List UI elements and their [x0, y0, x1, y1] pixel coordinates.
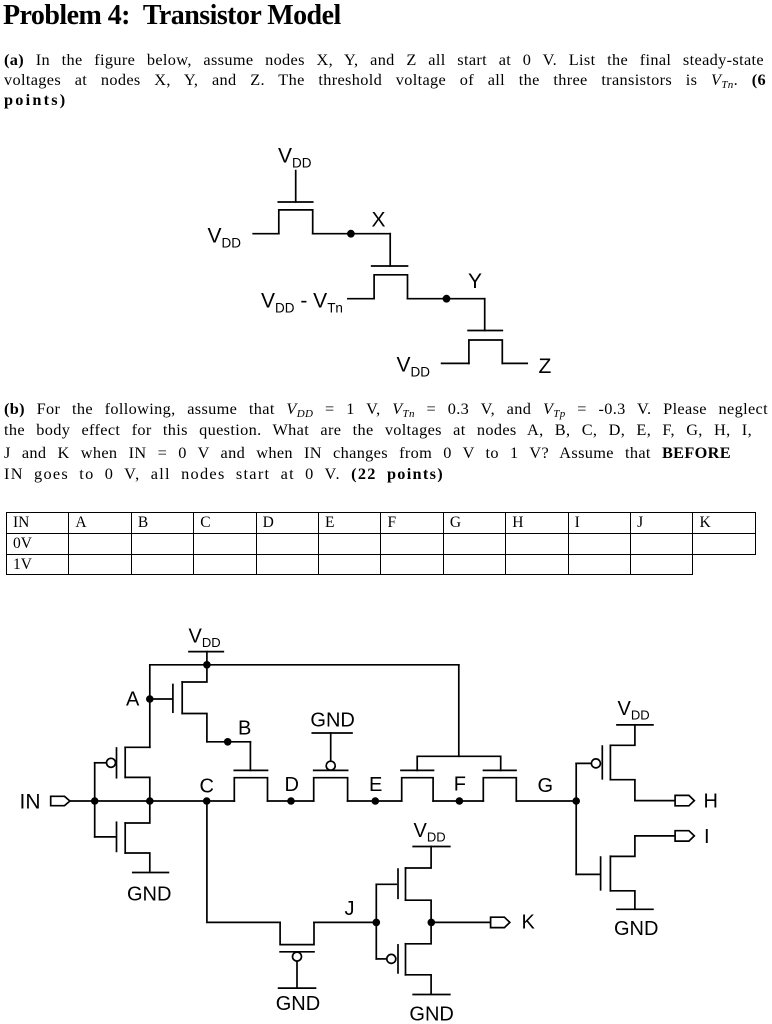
svg-text:GND: GND: [409, 1004, 453, 1024]
svg-text:H: H: [704, 791, 718, 813]
node B dot: [224, 738, 232, 746]
svg-text:I: I: [704, 826, 710, 848]
power VDD (right) bar: [617, 724, 653, 726]
transistor M11 (NMOS of K inverter): [376, 847, 431, 923]
svg-text:X: X: [372, 209, 386, 232]
svg-text:VDD - VTn: VDD - VTn: [261, 290, 343, 316]
transistor M3: [468, 331, 502, 364]
paragraph (a) line 1: [4, 50, 764, 70]
svg-text:A: A: [126, 689, 140, 711]
paragraph (b) line 2: [4, 420, 752, 440]
svg-text:IN: IN: [20, 791, 41, 814]
wire drain M1 to node X: [313, 233, 391, 235]
wire G gate column: [575, 763, 577, 874]
port I: [675, 831, 694, 841]
node C dot: [203, 797, 211, 805]
svg-text:F: F: [454, 774, 466, 796]
wire bus segment M7 to G: [516, 800, 576, 802]
transistor M9 (NMOS, output I): [576, 836, 635, 908]
wire bus segment M6 to M7: [433, 800, 483, 802]
svg-text:GND: GND: [276, 993, 320, 1015]
transistor M4 (pass, C-D): [234, 770, 267, 801]
transistor M2 (NMOS, gate A): [173, 665, 207, 742]
wire gate bridge M6/M7 to rail: [417, 665, 501, 771]
svg-text:K: K: [522, 912, 536, 934]
wire node B: [207, 741, 251, 743]
transistor M1: [278, 202, 312, 234]
wire J gate column: [375, 884, 377, 959]
port K: [491, 917, 510, 927]
wire B to gate of M4: [249, 742, 251, 771]
wire to port H: [635, 800, 675, 802]
node X dot: [347, 230, 355, 238]
wire node A to gate of M2: [150, 698, 172, 700]
node J dot: [373, 919, 381, 927]
node E dot: [372, 797, 380, 805]
node A dot: [146, 695, 154, 703]
svg-text:GND: GND: [127, 884, 171, 906]
paragraph (a) line 3: [4, 90, 67, 110]
wire node X to gate M2: [389, 234, 391, 266]
svg-text:B: B: [238, 718, 251, 740]
svg-text:D: D: [285, 774, 299, 796]
svg-text:Z: Z: [539, 355, 552, 378]
node G dot: [572, 797, 580, 805]
transistor M3 (NMOS of input inverter): [95, 801, 150, 871]
transistor M7 (pass, F-G): [483, 770, 516, 801]
paragraph (b) line 4: [4, 464, 444, 484]
wire to port I: [635, 835, 675, 837]
svg-text:VDD: VDD: [618, 698, 650, 723]
power VDD (K inverter) bar: [413, 846, 450, 848]
answer table: [6, 512, 756, 575]
wire to port K: [431, 921, 490, 923]
svg-text:C: C: [200, 776, 214, 798]
port IN: [51, 796, 70, 805]
svg-text:J: J: [345, 898, 355, 920]
svg-text:GND: GND: [614, 918, 658, 940]
wire source M2: [348, 298, 374, 300]
wire gate M1 from VDD: [295, 171, 297, 202]
transistor M12 (PMOS of K inverter): [376, 922, 431, 994]
wire drain M3 to Z: [502, 362, 527, 364]
svg-text:E: E: [369, 774, 382, 796]
ground bar (above M5): [312, 732, 352, 734]
wire M10 gate bubble to GND: [296, 961, 298, 987]
inverter output dot: [146, 797, 154, 805]
wire main bus segment IN to M4: [70, 800, 234, 802]
node IN dot: [91, 797, 99, 805]
node K dot: [428, 919, 436, 927]
wire bus segment M5 to M6: [348, 800, 402, 802]
wire IN gate column: [94, 763, 96, 837]
transistor M8 (PMOS, output H): [576, 725, 635, 801]
svg-text:G: G: [538, 775, 554, 797]
paragraph (a) line 2: [4, 70, 766, 95]
ground bar (below M10): [279, 987, 316, 989]
ground bar (right): [617, 908, 653, 910]
svg-text:VDD: VDD: [278, 145, 312, 171]
wire VDD rail: [150, 665, 459, 748]
wire bus segment M4 to M5: [268, 800, 314, 802]
svg-text:VDD: VDD: [189, 626, 221, 651]
transistor M2: [372, 266, 408, 299]
transistor M1 (PMOS of input inverter): [95, 747, 150, 801]
svg-text:Y: Y: [468, 270, 482, 293]
paragraph (b) line 1: [4, 399, 768, 424]
wire C to lower branch: [207, 801, 280, 922]
port H: [675, 795, 694, 805]
wire M10 to node J: [314, 921, 376, 923]
wire source M1: [253, 233, 279, 235]
ground bar (input inverter): [133, 872, 169, 874]
svg-text:VDD: VDD: [397, 354, 431, 380]
svg-text:VDD: VDD: [414, 820, 446, 845]
node F dot: [456, 797, 464, 805]
wire GND to M5 gate bubble: [330, 733, 332, 761]
node Y dot: [443, 295, 451, 303]
transistor M10 (PMOS pass, lower branch, grounded gate): [280, 922, 314, 961]
junction dot on rail: [203, 661, 211, 669]
title: [3, 0, 341, 32]
schematic 2: pass-transistor network with inverters: [0, 600, 772, 1024]
transistor M5 (PMOS pass, D-E, grounded gate): [314, 761, 348, 801]
wire VDD bar to rail: [206, 652, 208, 665]
wire drain M2 to node Y: [408, 298, 485, 300]
schematic 1: pass-transistor chain: [0, 135, 772, 385]
transistor M6 (pass, E-F): [401, 770, 434, 801]
ground bar (K inverter): [413, 994, 450, 996]
power VDD (top) bar: [189, 651, 223, 653]
node D dot: [287, 797, 295, 805]
svg-text:VDD: VDD: [208, 225, 242, 251]
paragraph (b) line 3: [4, 443, 731, 463]
wire node Y to gate M3: [484, 299, 486, 331]
wire source M3: [442, 362, 469, 364]
svg-text:GND: GND: [310, 709, 354, 731]
